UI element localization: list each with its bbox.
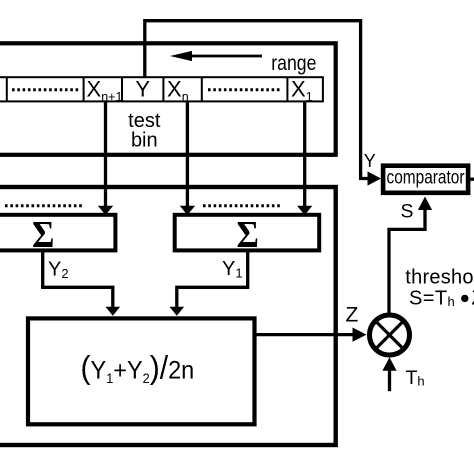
svg-text:Σ: Σ xyxy=(32,213,54,255)
dotted fill in right reference cells xyxy=(208,88,281,91)
svg-text:S: S xyxy=(401,201,414,223)
svg-text:Y: Y xyxy=(364,151,376,171)
svg-text:comparator: comparator xyxy=(387,166,465,188)
comparator box xyxy=(383,166,468,193)
wire X_1 cell to right summer xyxy=(297,101,312,215)
wire Y1 from right summer to averaging box xyxy=(170,252,248,316)
label: test bin xyxy=(128,110,161,151)
wire S from multiplier to comparator xyxy=(389,197,432,314)
multiplier (circle with X) xyxy=(370,315,410,355)
dotted fill in left reference cells xyxy=(12,88,79,91)
summer box left xyxy=(0,215,115,251)
svg-text:Z: Z xyxy=(346,304,359,327)
dotted line above right summer xyxy=(203,204,281,207)
svg-text:bin: bin xyxy=(131,130,158,152)
register window box xyxy=(0,43,336,155)
svg-text:Y: Y xyxy=(135,77,150,102)
wire X_n cell to right summer xyxy=(180,101,195,215)
svg-text:Σ: Σ xyxy=(237,213,259,255)
wire comparator output xyxy=(468,178,474,181)
wire Th input to multiplier xyxy=(382,357,396,391)
svg-text:threshold: threshold xyxy=(405,266,474,288)
svg-text:range: range xyxy=(271,52,316,76)
wire Z from averaging box to multiplier xyxy=(256,328,367,342)
summer box right xyxy=(175,215,320,251)
shift register row xyxy=(0,77,323,101)
label: S=Th*Z formula xyxy=(409,288,474,310)
dotted line above left summer xyxy=(5,204,84,207)
wire: feedback from test cell Y to comparator (top route) xyxy=(145,21,381,186)
range arrow xyxy=(170,51,262,61)
averaging box xyxy=(28,318,255,424)
wire Y2 from left summer to averaging box xyxy=(43,250,120,316)
wire X_{n+1} cell to left summer xyxy=(98,101,113,215)
CFAR processor outer box xyxy=(0,187,336,445)
